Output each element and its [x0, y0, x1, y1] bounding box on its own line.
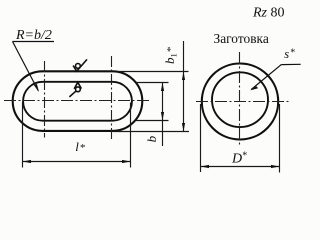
label b1* (rotated) — [162, 47, 179, 65]
svg-text:*: * — [290, 47, 295, 58]
dimension b extension line bottom (inner) — [136, 120, 169, 122]
svg-text:1: 1 — [170, 53, 179, 57]
svg-text:b: b — [144, 135, 159, 142]
dimension line b — [161, 83, 164, 147]
wall thickness callout s* — [250, 47, 301, 91]
dimension D* extension line right — [279, 104, 281, 173]
label b (rotated) — [144, 135, 159, 142]
workpiece label Zagotovka — [214, 31, 269, 46]
inner circle of tube blank — [212, 72, 268, 127]
label D* — [231, 151, 247, 167]
dimension b extension line top (inner) — [136, 82, 169, 84]
surface finish symbol on top face — [73, 59, 87, 71]
svg-text:Заготовка: Заготовка — [214, 31, 269, 46]
outer circle of tube blank — [202, 64, 278, 140]
label l* — [75, 139, 85, 154]
svg-text:*: * — [242, 151, 247, 162]
horizontal centerline of oval — [4, 100, 149, 102]
svg-text:*: * — [165, 47, 177, 53]
dimension line D* — [201, 165, 280, 168]
dimension l* extension line right — [130, 103, 132, 168]
roughness note Rz 80 — [252, 6, 285, 21]
radius callout R=b/2 — [13, 28, 55, 92]
dimension line b1* — [182, 41, 185, 132]
inner contour of oval part — [23, 82, 132, 121]
vertical centerline of circle — [239, 52, 241, 147]
dimension b1* extension line top (outer) — [117, 71, 189, 73]
svg-text:s: s — [284, 47, 289, 61]
svg-text:R=b/2: R=b/2 — [15, 28, 52, 43]
svg-text:D: D — [231, 151, 242, 166]
svg-text:l: l — [75, 139, 79, 154]
dimension D* extension line left — [200, 104, 202, 172]
svg-text:*: * — [80, 142, 86, 154]
surface finish symbol on inner face (inverted) — [69, 82, 81, 97]
right arc centerline — [111, 56, 113, 139]
horizontal centerline of circle — [196, 101, 291, 103]
dimension b1* extension line bottom (outer) — [113, 131, 189, 133]
dimension l* extension line left — [22, 102, 24, 168]
dimension line l* — [23, 160, 131, 163]
outer contour of oval part — [13, 71, 143, 131]
left arc centerline — [44, 61, 46, 138]
svg-text:Rz 80: Rz 80 — [252, 6, 285, 21]
